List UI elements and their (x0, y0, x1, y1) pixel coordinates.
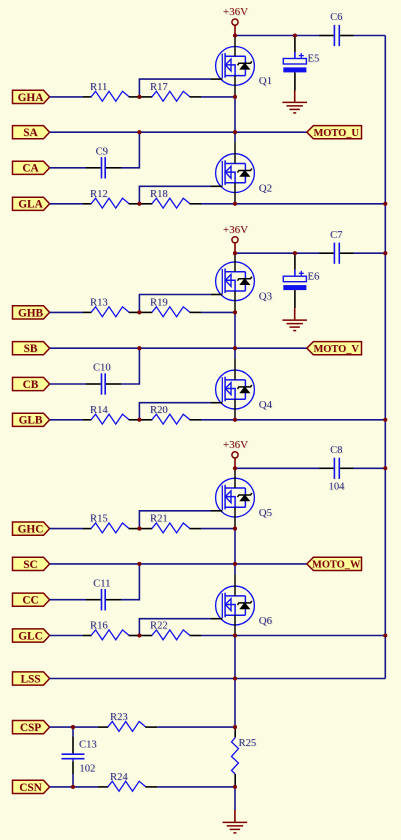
junction SA / bootstrap (137, 130, 141, 134)
svg-text:R15: R15 (90, 514, 108, 525)
capacitor E6 (283, 255, 319, 309)
resistor R20 (140, 405, 201, 424)
svg-text:+36V: +36V (223, 6, 248, 18)
wire +36V rail C to C8 (235, 467, 320, 469)
svg-text:C8: C8 (330, 445, 342, 456)
svg-text:CA: CA (22, 163, 39, 175)
junction C13 / CSN (71, 785, 75, 789)
port CC (13, 593, 50, 607)
transistor Q6 (216, 586, 273, 627)
wire gate riser to Q3 (139, 295, 222, 313)
power +36V phase A (223, 6, 248, 35)
junction C8 / LSS bus (383, 466, 387, 470)
resistor R18 (140, 189, 201, 208)
resistor R13 (83, 297, 140, 316)
junction phase node Q5/Q6 (233, 562, 237, 566)
wire gate riser to Q4 (139, 403, 222, 420)
port CSN (13, 780, 50, 794)
svg-text:Q5: Q5 (259, 507, 272, 519)
ground below E6 (282, 308, 307, 330)
wire GHA to R11 (50, 96, 83, 98)
junction R21 / Q5 source (233, 527, 237, 531)
power +36V phase C (223, 439, 248, 468)
svg-text:R20: R20 (150, 405, 168, 416)
svg-text:Q6: Q6 (259, 615, 273, 627)
wire GHC to R15 (50, 528, 83, 530)
junction SB / bootstrap (137, 346, 141, 350)
resistor R25 (228, 727, 256, 787)
svg-text:104: 104 (329, 482, 346, 493)
svg-text:R12: R12 (90, 189, 108, 200)
wire CC to C11 (50, 599, 86, 601)
svg-text:R11: R11 (90, 82, 107, 93)
svg-text:C10: C10 (93, 363, 111, 374)
svg-text:R16: R16 (90, 621, 108, 632)
junction R24 / R25 bottom / ground (233, 785, 237, 789)
svg-text:Q3: Q3 (259, 291, 272, 303)
wire GHB to R13 (50, 311, 83, 313)
power +36V phase B (223, 224, 248, 253)
wire GLB to R14 (50, 419, 83, 421)
wire Q6 drain wire (234, 564, 236, 575)
wire Q6 source pin (234, 615, 236, 635)
svg-text:R22: R22 (150, 621, 168, 632)
svg-text:MOTO_U: MOTO_U (313, 128, 359, 139)
junction R15/R21 gate node (137, 527, 141, 531)
junction R13/R19 gate node (137, 310, 141, 314)
port GLC (13, 629, 50, 643)
wire Q5 source to phase (234, 529, 236, 564)
transistor Q4 (216, 370, 273, 411)
svg-text:R25: R25 (239, 738, 257, 749)
port GLA (13, 197, 50, 211)
svg-text:R14: R14 (90, 405, 108, 416)
svg-text:CB: CB (23, 379, 39, 391)
wire C7 to LSS bus (354, 252, 386, 254)
ground below E5 (282, 91, 307, 113)
resistor R22 (140, 621, 201, 640)
resistor R15 (83, 514, 140, 533)
port GHB (13, 306, 50, 320)
svg-text:GHC: GHC (18, 524, 44, 536)
wire R18 to Q2 source and LSS bus (201, 203, 385, 205)
svg-text:GHB: GHB (18, 307, 44, 319)
junction R22 / Q6 source (233, 633, 237, 637)
wire +36V rail B to C7 (235, 252, 320, 254)
svg-text:102: 102 (79, 763, 95, 774)
port SB (13, 342, 50, 356)
svg-text:C9: C9 (96, 147, 108, 158)
svg-text:SB: SB (24, 343, 38, 355)
resistor R19 (140, 297, 201, 316)
port GHA (13, 90, 50, 104)
svg-text:Q2: Q2 (259, 182, 272, 194)
wire SC phase node (50, 563, 307, 565)
junction Q6 source / LSS bus (383, 633, 387, 637)
capacitor C11 (86, 578, 121, 610)
wire GLC to R16 (50, 635, 83, 637)
resistor R17 (140, 82, 201, 101)
port SA (13, 126, 50, 140)
transistor Q5 (216, 478, 272, 519)
capacitor C7 (320, 230, 354, 264)
resistor R21 (140, 514, 201, 533)
svg-text:Q4: Q4 (259, 399, 273, 411)
svg-text:C6: C6 (330, 12, 342, 23)
wire R20 to Q4 source and LSS bus (201, 419, 385, 421)
wire gate riser to Q2 (139, 186, 222, 204)
wire Q4 drain wire (234, 348, 236, 358)
svg-text:E6: E6 (308, 271, 320, 282)
wire Q1 source to phase (234, 97, 236, 132)
wire LSS row (50, 678, 386, 680)
wire C9 riser to SA (121, 132, 139, 168)
wire Q4 source pin (234, 399, 236, 420)
port SC (13, 557, 50, 571)
resistor R16 (83, 621, 140, 640)
port GHC (13, 522, 50, 536)
svg-text:SA: SA (23, 127, 38, 139)
wire sense node vertical Q6 source to R25 (234, 636, 236, 728)
wire Q1 drain pin (234, 36, 236, 57)
resistor R14 (83, 405, 140, 424)
junction R19 / Q3 source (233, 310, 237, 314)
wire C11 riser to SC (121, 564, 139, 600)
junction LSS / sense node (233, 676, 237, 680)
svg-text:SC: SC (23, 559, 37, 571)
capacitor C8 (320, 445, 354, 493)
junction Q2 source / LSS bus (383, 202, 387, 206)
junction phase node Q3/Q4 (233, 346, 237, 350)
junction rail A / Q1 drain (233, 33, 237, 37)
svg-text:C7: C7 (330, 230, 342, 241)
capacitor C9 (86, 147, 121, 179)
wire Q4 drain pin (234, 359, 236, 380)
svg-text:LSS: LSS (20, 673, 40, 685)
junction rail B / Q3 drain (233, 251, 237, 255)
svg-text:E5: E5 (308, 54, 320, 65)
wire CB to C10 (50, 383, 86, 385)
wire Q2 drain wire (234, 132, 236, 142)
wire C8 to LSS bus (354, 467, 386, 469)
port MOTO_W (307, 557, 362, 570)
wire R23 to R25 top (157, 726, 235, 728)
junction rail C / Q5 drain (233, 466, 237, 470)
svg-text:+36V: +36V (223, 224, 248, 236)
svg-text:R23: R23 (110, 712, 128, 723)
svg-text:MOTO_V: MOTO_V (313, 344, 359, 355)
resistor R12 (83, 189, 140, 208)
wire Q1 source pin (234, 76, 236, 97)
transistor Q2 (216, 154, 272, 195)
wire Q2 source pin (234, 183, 236, 204)
junction CSP / C13 (71, 725, 75, 729)
wire gate riser to Q1 (139, 79, 222, 97)
svg-text:R13: R13 (90, 297, 108, 308)
capacitor C13 (62, 729, 97, 787)
svg-text:CSP: CSP (20, 722, 41, 734)
port CB (13, 377, 50, 391)
wire CSN node to ground (234, 787, 236, 810)
svg-text:CSN: CSN (19, 782, 42, 794)
wire R22 to Q6 source and LSS bus (201, 635, 385, 637)
capacitor C6 (320, 12, 354, 46)
svg-text:+36V: +36V (223, 439, 248, 451)
svg-text:C11: C11 (93, 578, 110, 589)
ground main (223, 810, 248, 833)
resistor R11 (83, 82, 140, 101)
port MOTO_U (307, 126, 362, 139)
wire R24 to R25 bottom (157, 786, 235, 788)
port CSP (13, 721, 50, 735)
junction R17 / Q1 source (233, 95, 237, 99)
svg-text:R19: R19 (150, 297, 168, 308)
wire Q6 drain pin (234, 575, 236, 596)
junction R18 / Q2 source (233, 202, 237, 206)
junction phase node Q1/Q2 (233, 130, 237, 134)
wire Q5 drain pin (234, 468, 236, 488)
wire CSN row left (50, 786, 98, 788)
wire C10 riser to SB (121, 348, 139, 384)
svg-text:R18: R18 (150, 189, 168, 200)
junction R14/R20 gate node (137, 418, 141, 422)
wire CA to C9 (50, 167, 86, 169)
svg-text:R17: R17 (150, 82, 168, 93)
resistor R23 (98, 712, 157, 731)
svg-text:C13: C13 (79, 739, 97, 750)
junction C7 / LSS bus (383, 251, 387, 255)
wire Q2 drain pin (234, 142, 236, 163)
wire SB phase node (50, 347, 307, 349)
junction R23 / R25 top (233, 725, 237, 729)
svg-text:R21: R21 (150, 514, 168, 525)
svg-text:R24: R24 (110, 772, 128, 783)
port GLB (13, 413, 50, 427)
transistor Q1 (216, 47, 272, 88)
wire R21 to Q5 source (201, 528, 235, 530)
wire R19 to Q3 source (201, 311, 235, 313)
junction rail B / E6 (293, 251, 297, 255)
wire LSS bus vertical (384, 36, 386, 679)
svg-text:GLA: GLA (18, 199, 43, 211)
wire C6 to LSS bus (354, 35, 386, 37)
port LSS (13, 672, 50, 686)
resistor R24 (98, 772, 157, 791)
wire gate riser to Q5 (139, 511, 222, 529)
port MOTO_V (307, 342, 362, 355)
junction R12/R18 gate node (137, 202, 141, 206)
svg-text:MOTO_W: MOTO_W (312, 560, 361, 571)
svg-text:CC: CC (22, 595, 38, 607)
junction rail A / E5 (293, 33, 297, 37)
svg-text:GHA: GHA (18, 92, 45, 104)
junction R20 / Q4 source (233, 418, 237, 422)
wire Q5 source pin (234, 507, 236, 528)
junction R16/R22 gate node (137, 633, 141, 637)
wire +36V rail A to C6 (235, 35, 320, 37)
capacitor C10 (86, 363, 121, 395)
transistor Q3 (216, 262, 272, 303)
wire SA phase node (50, 131, 307, 133)
svg-text:GLB: GLB (19, 415, 43, 427)
wire Q3 source pin (234, 291, 236, 312)
wire R17 to Q1 source (201, 96, 235, 98)
wire gate riser to Q6 (139, 619, 222, 636)
junction Q4 source / LSS bus (383, 418, 387, 422)
wire Q3 source to phase (234, 312, 236, 348)
junction R11/R17 gate node (137, 95, 141, 99)
junction SC / bootstrap (137, 562, 141, 566)
svg-text:GLC: GLC (18, 630, 42, 642)
wire Q3 drain pin (234, 253, 236, 272)
wire CSP row left (50, 726, 98, 728)
svg-text:Q1: Q1 (259, 75, 272, 87)
capacitor E5 (283, 37, 319, 91)
wire GLA to R12 (50, 203, 83, 205)
port CA (13, 161, 50, 175)
